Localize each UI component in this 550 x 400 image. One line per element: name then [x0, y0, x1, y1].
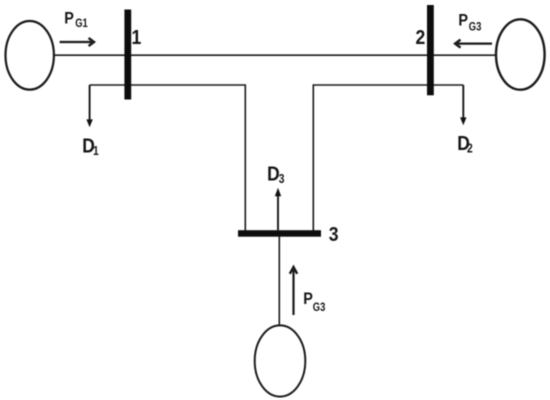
- arrow PG3 bottom (up, chevron head): [290, 267, 297, 315]
- generator G2 (right ellipse): [496, 19, 545, 89]
- label PG3 bottom: [303, 290, 325, 315]
- bus 1 (thick vertical bar): [124, 10, 131, 100]
- bus 2 (thick vertical bar): [427, 5, 434, 95]
- svg-text:3: 3: [279, 173, 285, 186]
- label PG3 right: [458, 12, 481, 34]
- arrow D3 (up, solid head): [275, 188, 281, 230]
- label D2: [457, 133, 472, 156]
- generator G1 (left ellipse): [6, 21, 54, 90]
- label D3: [267, 163, 284, 186]
- svg-text:P: P: [458, 12, 468, 30]
- svg-text:P: P: [303, 290, 313, 308]
- wire: bottom generator to bus 3: [278, 237, 280, 326]
- svg-text:G3: G3: [313, 301, 326, 314]
- wire: main line bus1-bus2 and generator stubs: [54, 54, 497, 56]
- wire: lower-left branch from D1 drop to bus 3: [90, 85, 246, 231]
- arrow D1 (down, solid head): [86, 85, 92, 127]
- arrow PG3 right (left-pointing, chevron head): [455, 40, 492, 48]
- svg-text:1: 1: [93, 145, 99, 158]
- wire: lower-right branch from bus 3 to D2 drop: [313, 85, 463, 231]
- svg-text:1: 1: [132, 27, 142, 50]
- bus 3 (thick horizontal bar): [238, 230, 321, 237]
- svg-text:3: 3: [329, 224, 339, 247]
- label D1: [82, 135, 99, 158]
- svg-text:P: P: [64, 10, 74, 28]
- svg-text:D: D: [267, 163, 280, 186]
- arrow D2 (down, solid head): [460, 85, 466, 125]
- generator G3 (bottom ellipse): [255, 325, 306, 396]
- svg-text:2: 2: [416, 27, 426, 50]
- svg-text:G1: G1: [75, 17, 88, 30]
- arrow PG1 (right-pointing, chevron head): [60, 38, 94, 46]
- svg-text:2: 2: [467, 143, 473, 156]
- svg-text:G3: G3: [469, 21, 482, 34]
- label PG1: [64, 10, 88, 31]
